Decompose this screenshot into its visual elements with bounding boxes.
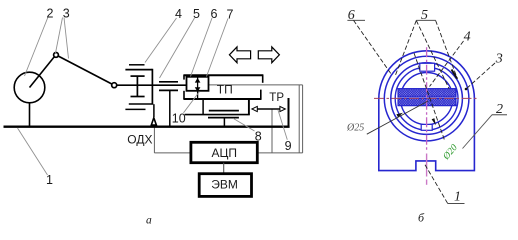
leader 4 dashed	[430, 41, 464, 87]
label 10 leader	[184, 92, 200, 113]
stator outer ring 3	[384, 56, 469, 141]
lower plate 8	[208, 117, 239, 119]
Ф20 dimension dashed diagonal	[414, 53, 444, 140]
ТР double arrow 9	[257, 108, 280, 110]
svg-text:ТП: ТП	[217, 83, 233, 97]
svg-text:10: 10	[172, 112, 186, 126]
valve triangle up	[195, 78, 201, 83]
svg-text:Ø25: Ø25	[346, 123, 364, 134]
svg-text:6: 6	[211, 7, 218, 21]
wire: thin vertical right pair inner	[298, 85, 300, 153]
svg-text:5: 5	[193, 7, 200, 21]
link rod 3	[56, 55, 114, 85]
ТР right wall	[288, 98, 290, 127]
label 4 leader	[145, 18, 177, 63]
plate frame right wall	[248, 100, 250, 115]
capacitive pickup 5	[159, 81, 178, 83]
wire: plate stem to base	[223, 118, 225, 126]
plate frame left wall	[202, 100, 204, 115]
valve center stem	[197, 76, 199, 99]
centerline horizontal	[374, 97, 479, 99]
top notch keyway	[420, 63, 435, 71]
label 1 leader	[18, 128, 48, 175]
leader 5 mid dashed	[416, 21, 449, 89]
leader 1 dashed	[425, 164, 448, 203]
label 5 leader	[160, 18, 195, 78]
АЦП box	[191, 142, 257, 162]
label 3 leader b	[64, 18, 69, 59]
leader 6 dashed	[354, 20, 392, 74]
svg-text:2: 2	[47, 6, 54, 20]
wire: thin vertical from ТР arrow down	[271, 109, 273, 153]
svg-text:5: 5	[421, 8, 428, 23]
crank disk 2	[14, 72, 45, 103]
label 6 leader	[191, 18, 213, 77]
label 2 leader	[25, 17, 49, 76]
leader 2 solid	[463, 115, 493, 149]
wire: thin vertical right pair outer	[302, 85, 304, 153]
wire: thin horizontal top from ТП block to right	[208, 84, 303, 86]
leader 3 dashed	[466, 63, 495, 89]
svg-text:ТР: ТР	[269, 92, 284, 104]
Ф25 dimension leader with arrow	[367, 101, 428, 134]
winding band 5	[398, 89, 456, 106]
svg-text:1: 1	[454, 189, 461, 204]
big outline arrow left	[229, 47, 250, 63]
valve triangle down	[195, 87, 201, 92]
wire: АЦП to ЭВМ	[223, 163, 225, 174]
ОДХ input triangle marker	[151, 118, 156, 125]
plate frame mid rail	[185, 114, 250, 116]
label 9 leader	[278, 110, 287, 140]
ЭВМ box	[199, 174, 251, 197]
label 7 leader	[207, 19, 229, 77]
leader 5 left dashed	[395, 21, 416, 76]
ТП block bottom rail	[183, 98, 261, 100]
svg-text:3: 3	[63, 6, 70, 20]
svg-text:АЦП: АЦП	[212, 146, 238, 160]
wire: rod down to ОДХ marker	[153, 104, 155, 117]
cylinder 4	[129, 64, 145, 66]
piston inside cylinder	[131, 75, 145, 77]
bottom notch keyway	[421, 124, 432, 130]
svg-text:1: 1	[46, 173, 53, 187]
housing 2	[379, 51, 475, 171]
valve square 6	[187, 77, 209, 91]
inner circle rotor	[401, 73, 453, 125]
leader 5 right dashed	[436, 21, 458, 80]
svg-text:7: 7	[227, 8, 234, 22]
stator ring B 4	[391, 63, 463, 135]
svg-text:ОДХ: ОДХ	[127, 133, 152, 147]
label 8 leader	[233, 118, 255, 131]
wire: thin connection bottom rail to АЦП and box right	[154, 152, 302, 154]
svg-text:6: 6	[348, 8, 355, 23]
big outline arrow right	[258, 47, 279, 63]
svg-text:б: б	[418, 211, 425, 225]
upper plate	[209, 110, 239, 112]
node: base line 1	[4, 126, 290, 128]
joint B	[112, 83, 117, 88]
label 3 leader a	[56, 18, 63, 54]
svg-text:4: 4	[175, 7, 182, 21]
joint A	[54, 53, 59, 58]
wire: rod from joint B to ТП block	[117, 84, 187, 86]
svg-text:9: 9	[285, 139, 292, 153]
radial tick mark	[452, 70, 458, 79]
slot ring C	[395, 67, 458, 130]
svg-text:3: 3	[495, 52, 503, 67]
wire: thin connection ОДХ to АЦП vertical	[153, 127, 155, 153]
svg-text:4: 4	[464, 29, 471, 44]
centerline vertical	[426, 47, 428, 151]
svg-text:8: 8	[255, 130, 262, 144]
svg-text:ЭВМ: ЭВМ	[211, 177, 238, 191]
ТП block top rail	[183, 74, 263, 76]
svg-text:а: а	[146, 215, 152, 227]
